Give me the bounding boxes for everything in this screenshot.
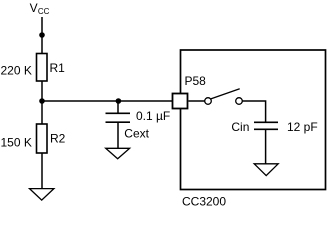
svg-text:12 pF: 12 pF xyxy=(287,120,318,134)
svg-text:220 K: 220 K xyxy=(1,64,32,78)
svg-text:0.1 µF: 0.1 µF xyxy=(136,109,170,123)
svg-text:V: V xyxy=(30,1,38,15)
svg-text:Cext: Cext xyxy=(124,126,149,140)
svg-text:CC3200: CC3200 xyxy=(182,195,226,209)
svg-text:R1: R1 xyxy=(50,61,66,75)
svg-text:R2: R2 xyxy=(50,131,66,145)
svg-text:P58: P58 xyxy=(185,74,207,88)
svg-text:Cin: Cin xyxy=(231,120,249,134)
svg-text:150 K: 150 K xyxy=(1,136,32,150)
svg-text:CC: CC xyxy=(38,7,50,16)
